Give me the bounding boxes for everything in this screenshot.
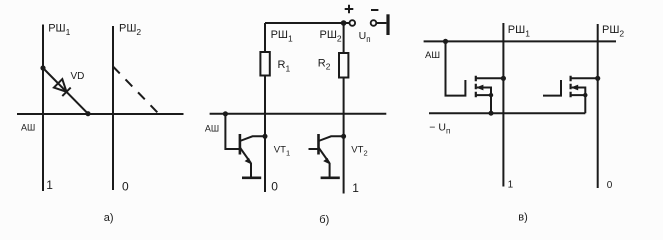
svg-text:1: 1 — [352, 181, 359, 195]
base stub VT2 (unconnected) — [309, 148, 319, 150]
diode VD (anode-cathode diagonal wire) — [43, 68, 88, 114]
address line АШ (fig v) — [424, 40, 616, 42]
word line РШ1 (fig v) — [502, 23, 504, 187]
svg-text:в): в) — [518, 212, 528, 224]
svg-text:R2: R2 — [318, 57, 331, 71]
emitter ground wire VT2 — [329, 163, 331, 178]
collector node VT1 — [263, 134, 268, 139]
supply wire top (fig b) — [265, 22, 349, 24]
transistor VT1 emitter with arrow — [240, 148, 251, 164]
svg-text:АШ: АШ — [21, 123, 35, 133]
svg-text:Uп: Uп — [359, 30, 371, 44]
word line РШ1 (fig b) — [264, 23, 266, 192]
svg-text:0: 0 — [122, 180, 129, 194]
svg-text:а): а) — [104, 212, 114, 224]
emitter ground wire VT1 — [250, 163, 252, 178]
drain node VT3 — [501, 76, 506, 81]
minus sign — [371, 9, 378, 11]
node on РШ1 (fig a, diode anode tap) — [40, 65, 45, 70]
MOSFET VT4 source — [571, 95, 586, 113]
MOSFET VT3 drain — [476, 77, 504, 79]
transistor VT2 collector — [319, 136, 344, 141]
svg-text:б): б) — [319, 214, 329, 226]
svg-text:РШ2: РШ2 — [119, 22, 141, 37]
node АШ / VT3 gate junction — [443, 39, 448, 44]
resistor R1 — [260, 52, 269, 76]
minus terminal wire — [376, 22, 386, 24]
MOSFET VT3 substrate arrow — [477, 88, 491, 96]
source-rail node VT3 — [489, 111, 494, 116]
transistor VT2 emitter with arrow — [319, 148, 330, 164]
svg-text:РШ1: РШ1 — [271, 29, 293, 44]
svg-text:РШ1: РШ1 — [48, 22, 70, 37]
MOSFET VT4 substrate arrow — [572, 88, 586, 96]
MOSFET VT3 source — [476, 95, 491, 113]
word line РШ2 (fig a) — [112, 26, 114, 190]
diode VD cathode bar — [62, 88, 70, 97]
plus sign — [345, 5, 354, 14]
svg-text:0: 0 — [607, 180, 613, 191]
svg-text:R1: R1 — [278, 59, 291, 73]
drain node VT4 — [595, 76, 600, 81]
resistor R2 — [339, 53, 348, 78]
base wire VT1 — [225, 114, 240, 149]
word line РШ2 (fig v) — [597, 24, 599, 188]
svg-text:VT1: VT1 — [274, 144, 290, 157]
gate lead and gate electrode VT3 — [446, 41, 466, 95]
MOSFET VT3 channel (dashed) — [475, 76, 477, 98]
svg-text:АШ: АШ — [205, 123, 219, 133]
node on АШ (fig a, diode cathode tap) — [85, 111, 90, 116]
svg-text:VT2: VT2 — [351, 144, 367, 157]
source-substrate node VT3 — [489, 93, 493, 97]
transistor VT1 collector — [240, 136, 265, 141]
diode VD triangle — [54, 79, 67, 92]
source-substrate node VT4 — [583, 93, 587, 97]
collector node VT2 — [341, 134, 346, 139]
address line АШ (fig b) — [210, 113, 387, 115]
word line РШ1 (fig a) — [42, 25, 44, 192]
MOSFET VT4 channel (dashed) — [569, 76, 571, 98]
svg-text:РШ2: РШ2 — [320, 29, 342, 44]
ground bar VT2 — [321, 177, 340, 180]
minus terminal circle — [371, 20, 377, 26]
gate stub VT4 (unconnected) — [543, 80, 561, 96]
node АШ / VT1 base junction — [223, 111, 228, 116]
transistor VT2 base bar — [317, 134, 320, 155]
word line РШ2 (fig b) — [343, 23, 345, 194]
ground bar VT1 — [242, 177, 261, 180]
node junction РШ2 / supply top (fig b) — [341, 20, 347, 26]
svg-text:1: 1 — [46, 178, 53, 192]
dashed absent-diode link (fig a) — [113, 67, 158, 114]
svg-text:1: 1 — [508, 179, 514, 190]
svg-text:РШ1: РШ1 — [508, 24, 530, 39]
MOSFET VT4 drain — [571, 77, 598, 79]
svg-text:РШ2: РШ2 — [602, 24, 624, 39]
svg-text:0: 0 — [271, 180, 278, 194]
transistor VT1 base bar — [239, 134, 242, 155]
svg-text:− Uп: − Uп — [429, 121, 450, 135]
plus terminal circle — [350, 20, 356, 26]
address line АШ (fig a) — [17, 113, 184, 115]
minus terminal bar — [386, 14, 389, 35]
supply line -Uп (fig v) — [429, 112, 585, 114]
svg-text:АШ: АШ — [425, 50, 440, 61]
svg-text:VD: VD — [71, 71, 85, 82]
